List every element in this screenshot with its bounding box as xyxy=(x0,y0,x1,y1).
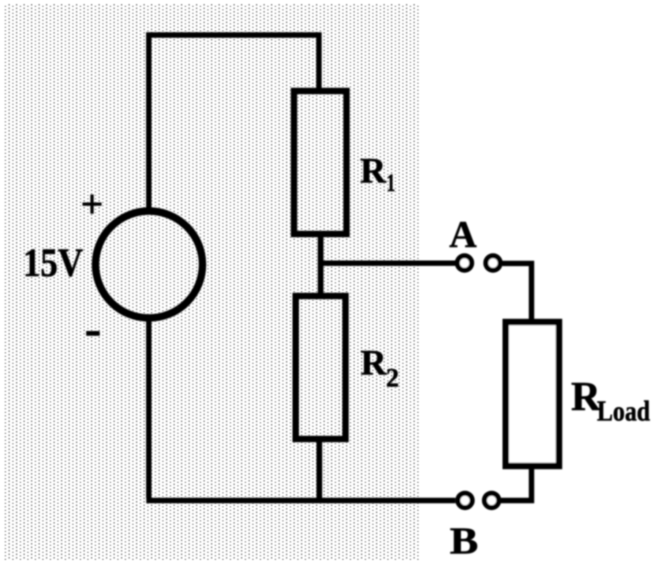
wire: R2 bottom down to bottom rail xyxy=(316,439,322,500)
svg-text:R: R xyxy=(361,343,388,383)
resistor R2 xyxy=(296,296,346,439)
svg-text:2: 2 xyxy=(386,364,399,393)
svg-text:Load: Load xyxy=(597,397,650,428)
voltage source V1 xyxy=(96,211,203,318)
svg-text:+: + xyxy=(81,182,104,227)
label R1 xyxy=(360,151,395,198)
wire: bottom rail to terminal B xyxy=(146,498,455,503)
resistor R1 xyxy=(294,91,347,234)
wire: source positive terminal up and across to R1 top xyxy=(149,35,319,212)
svg-text:R: R xyxy=(360,151,387,191)
terminal A right contact xyxy=(486,256,500,270)
wire: terminal A to RLoad top xyxy=(502,263,531,322)
terminal B right contact xyxy=(484,493,498,507)
svg-text:1: 1 xyxy=(387,170,396,197)
resistor RLoad xyxy=(506,322,559,466)
terminal B left contact xyxy=(458,493,472,507)
terminal A left contact xyxy=(457,256,471,270)
shaded source-network region xyxy=(4,4,420,560)
wire: source negative terminal down to bottom rail xyxy=(146,318,151,498)
wire: R1 bottom to R2 top xyxy=(318,234,324,296)
wire: divider node to terminal A xyxy=(318,261,455,266)
svg-text:15V: 15V xyxy=(23,240,83,285)
svg-text:-: - xyxy=(85,300,102,356)
svg-text:B: B xyxy=(450,521,479,563)
label RLoad xyxy=(571,373,650,428)
wire: RLoad bottom to terminal B xyxy=(501,466,532,501)
label R2 xyxy=(361,343,400,393)
svg-text:A: A xyxy=(449,214,477,256)
